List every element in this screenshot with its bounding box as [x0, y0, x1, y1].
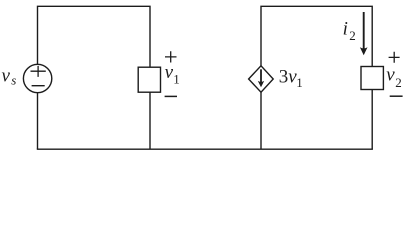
- svg-text:s: s: [11, 73, 16, 88]
- label v1: [165, 62, 180, 86]
- svg-text:1: 1: [296, 75, 303, 90]
- voltage source Vs (circle): [23, 64, 51, 92]
- plus sign inside source: [31, 66, 46, 77]
- svg-text:3: 3: [279, 67, 289, 88]
- label v_s: [2, 65, 17, 87]
- wire: v2 bottom lead: [371, 90, 373, 150]
- element box v1: [138, 67, 160, 92]
- svg-text:2: 2: [395, 75, 402, 90]
- minus sign inside source: [32, 85, 45, 87]
- svg-text:v: v: [386, 65, 395, 86]
- minus label (v2 polarity): [390, 95, 403, 97]
- wire: v1 bottom lead: [149, 92, 151, 149]
- label v2: [386, 65, 402, 90]
- arrow inside dependent source: [258, 69, 264, 87]
- label 3v1: [279, 67, 303, 90]
- svg-text:v: v: [165, 62, 174, 83]
- label i2: [343, 18, 356, 43]
- svg-text:2: 2: [349, 28, 356, 43]
- dependent current source diamond: [249, 66, 274, 92]
- wire: dependent source bottom lead: [260, 92, 262, 149]
- minus label (v1 polarity): [165, 95, 177, 97]
- wire: vs bottom lead: [37, 93, 39, 150]
- svg-text:1: 1: [173, 71, 180, 86]
- wire: bottom rail: [37, 148, 373, 150]
- svg-text:v: v: [2, 65, 11, 86]
- current arrow i2: [360, 12, 368, 55]
- plus label (v1 polarity): [165, 51, 177, 62]
- wire: right loop top (dep source top lead, top rail, v2 top lead): [261, 6, 372, 66]
- svg-text:i: i: [343, 18, 348, 39]
- plus label (v2 polarity): [389, 52, 400, 63]
- element box v2: [361, 67, 383, 90]
- wire: left loop top (vs top lead, top rail, v1 top lead): [38, 6, 151, 67]
